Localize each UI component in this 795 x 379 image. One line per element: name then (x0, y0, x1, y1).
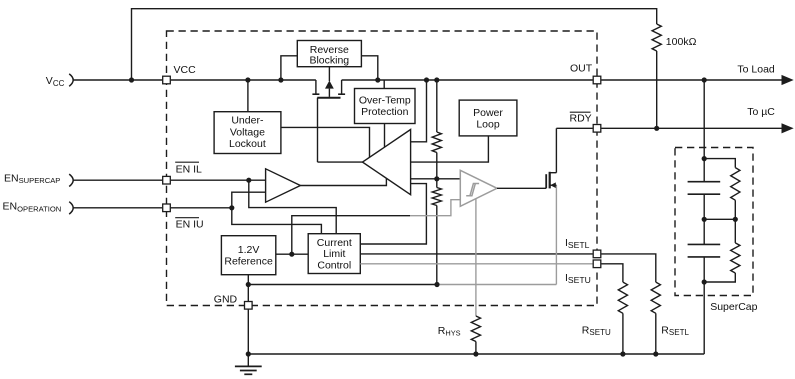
svg-text:100kΩ: 100kΩ (666, 36, 697, 48)
svg-text:Over-Temp: Over-Temp (359, 95, 411, 107)
svg-text:Control: Control (317, 259, 351, 271)
svg-text:Loop: Loop (476, 118, 500, 130)
svg-text:Blocking: Blocking (309, 54, 349, 66)
svg-text:Under-: Under- (231, 115, 264, 127)
svg-text:To Load: To Load (737, 63, 775, 75)
svg-text:EN IL: EN IL (176, 163, 202, 175)
svg-text:Reference: Reference (224, 255, 273, 267)
svg-text:EN IU: EN IU (176, 219, 204, 231)
svg-text:SuperCap: SuperCap (710, 301, 757, 313)
svg-text:Voltage: Voltage (230, 126, 265, 138)
svg-text:GND: GND (214, 293, 238, 305)
svg-text:To µC: To µC (747, 106, 775, 118)
svg-text:Current: Current (317, 237, 352, 249)
svg-text:OUT: OUT (570, 62, 593, 74)
svg-text:VCC: VCC (174, 64, 197, 76)
svg-text:Limit: Limit (323, 248, 345, 260)
svg-text:Lockout: Lockout (229, 138, 266, 150)
svg-text:1.2V: 1.2V (238, 244, 260, 256)
svg-text:Protection: Protection (361, 106, 408, 118)
svg-text:Power: Power (473, 107, 503, 119)
svg-text:RDY: RDY (570, 112, 592, 124)
